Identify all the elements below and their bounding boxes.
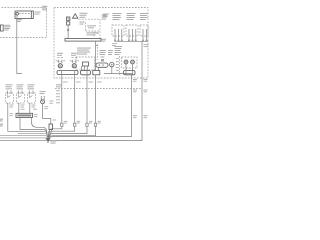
indicator lamp L3: [124, 60, 128, 64]
pot text: [108, 50, 113, 55]
gauge G1: [41, 96, 45, 104]
wire: [95, 75, 97, 123]
fuse F1 box: [15, 11, 33, 19]
switch SW2 ground wire: [18, 103, 20, 113]
switch SW1 label: [6, 84, 13, 89]
label 2: [53, 119, 57, 122]
splice bus bar S1: [65, 39, 101, 42]
warning triangle: [73, 14, 78, 18]
lamp pin wires: [126, 64, 133, 71]
blower resistor capsule: [93, 63, 108, 75]
fuse block label text: [42, 6, 48, 10]
ground label: [51, 141, 57, 144]
relay K2 dashed box: [126, 25, 138, 36]
wire from splice pack left: [20, 118, 48, 141]
inline connector above bus: [94, 32, 99, 38]
motor M1: [110, 62, 114, 73]
indicator lamp L4: [131, 60, 135, 64]
splice connector above ground: [48, 124, 53, 140]
body harness dashed line: [55, 88, 142, 90]
fuse rating label: [17, 19, 23, 22]
splice pack ground wire: [32, 118, 48, 141]
cluster connector capsule C2: [57, 71, 78, 75]
wire label (relay return): [144, 79, 148, 92]
tick: [74, 121, 81, 126]
inline connector right: [116, 56, 120, 75]
connector capsule C5: [124, 71, 136, 75]
relay K3 dashed box: [140, 25, 148, 36]
dimmer text: [100, 50, 107, 62]
relay K1 pin wires: [115, 29, 122, 41]
wire: [48, 126, 74, 140]
dashed note line 2: [86, 30, 101, 32]
ground return wire right: [48, 41, 142, 140]
dashed note right edge: [99, 19, 101, 38]
left ground rail wires: [18, 133, 48, 140]
wire label (panel return): [133, 79, 137, 92]
connector C4 label: [96, 44, 98, 60]
tick label: [32, 105, 36, 108]
component note text right: [102, 15, 108, 20]
wire: [86, 75, 88, 123]
wire: [0, 138, 48, 140]
splice pack labels: [21, 108, 38, 111]
switch SW1 dashed box: [6, 93, 14, 103]
tick label: [44, 106, 48, 109]
triangle note text: [80, 13, 88, 18]
lamp L1 bulb: [58, 64, 62, 68]
left connector label box C1: [0, 25, 10, 31]
wire from fuse down: [17, 19, 22, 74]
label: [34, 113, 38, 116]
tick: [86, 121, 93, 126]
relay K1 text: [103, 13, 148, 20]
cluster connector capsule C3: [81, 71, 91, 75]
wire labels: [133, 115, 148, 118]
inline connector dashes: [86, 23, 97, 32]
switch SW1 ground wire: [8, 103, 48, 140]
ambient light sensor symbol: [67, 17, 70, 25]
relay ground bus wire: [115, 40, 149, 42]
display module dashed box: [76, 57, 95, 71]
switch SW2 label: [17, 84, 24, 89]
wire: [48, 126, 87, 140]
wire label column: [56, 84, 62, 103]
indicator lamps dashed box: [122, 57, 138, 68]
ground point G103: [45, 138, 50, 143]
wire label: [144, 44, 149, 47]
bus pin ticks: [114, 40, 147, 42]
wire bus drop right: [95, 41, 97, 70]
bottom connector ticks: [61, 121, 68, 126]
underhood fuse block dashed box: [0, 8, 47, 38]
dashed note line 1: [79, 18, 100, 20]
tick: [94, 121, 101, 126]
lamp L2 pins: [70, 60, 79, 63]
switch SW3 ground wire: [29, 103, 31, 113]
relay K3 pin wires: [143, 29, 147, 41]
splice dot: [67, 29, 69, 31]
fuse name text right: [35, 12, 41, 15]
note text 3: [87, 32, 99, 35]
lamp L2 bulb: [72, 64, 76, 68]
bus label: [112, 43, 117, 46]
bus right label: [102, 39, 107, 42]
dashed link inside fuse box: [19, 13, 31, 15]
collector wire right: [49, 74, 132, 141]
fuse element: [16, 13, 19, 19]
splice wire label: [50, 101, 54, 104]
lamp ground wires down: [61, 75, 63, 124]
splice pack S2 box: [16, 113, 33, 117]
switch SW3 dashed box: [28, 93, 36, 103]
note text 2: [80, 22, 85, 25]
relay K1 dashed box: [112, 25, 124, 36]
wire: [0, 140, 48, 142]
wire labels under cluster: [63, 81, 102, 84]
instrument cluster dashed box: [54, 8, 148, 79]
gauge ground wire: [43, 104, 51, 124]
relay K2 pin wires: [129, 29, 136, 41]
lamp L1 pins: [56, 60, 65, 63]
lamp L2 label: [71, 53, 77, 58]
switch SW1 pins: [8, 91, 12, 95]
gauge label: [40, 91, 46, 94]
wire sensor down to bus: [67, 25, 69, 39]
display module text: [77, 48, 91, 55]
tick label: [21, 105, 25, 108]
wire: [0, 136, 48, 141]
ground return wires right side: [48, 126, 62, 140]
motor text: [115, 46, 123, 55]
tick label: [10, 105, 14, 117]
lamp L1 label: [57, 53, 63, 58]
wire: [74, 75, 76, 124]
left offpage wire labels: [0, 119, 3, 127]
switch SW2 pins: [19, 91, 23, 95]
wire: [49, 126, 96, 140]
switch SW3 label: [28, 84, 35, 89]
switch SW3 pins: [30, 91, 34, 95]
switch SW2 dashed box: [17, 93, 25, 103]
